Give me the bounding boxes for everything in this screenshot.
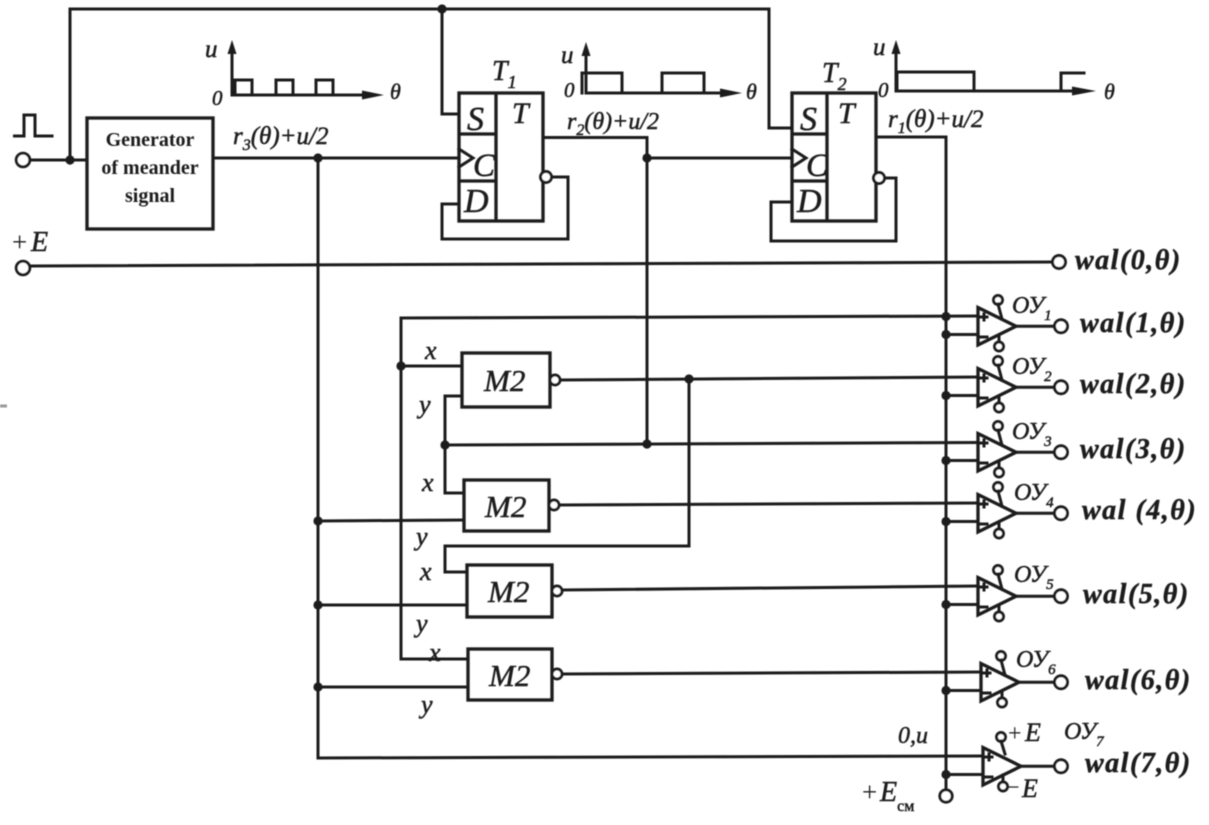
waveform B axes [561, 42, 757, 104]
node r2 drop junction [642, 439, 651, 448]
modulo-2 adder M2-3 [467, 565, 552, 617]
terminal wal(2) [1055, 381, 1068, 394]
terminal wal(4) [1055, 507, 1068, 520]
svg-text:θ: θ [746, 79, 757, 104]
node input junction [65, 155, 74, 164]
node OY5 - input [941, 600, 950, 609]
wire OY5 - input stub [946, 603, 978, 606]
svg-text:of meander: of meander [101, 157, 198, 179]
output bubble M2-2 [549, 500, 559, 510]
svg-text:+: + [1008, 721, 1022, 747]
input terminal [16, 153, 30, 167]
svg-text:0: 0 [212, 86, 223, 110]
wire M2-2 x input [445, 445, 464, 493]
wire M2-1 x input [401, 365, 462, 368]
op-amp OY1 [978, 296, 1016, 352]
clock triangle T2 [792, 149, 806, 167]
svg-text:x: x [421, 468, 434, 497]
wire OY1 output [1016, 325, 1055, 328]
svg-text:wal(7,θ): wal(7,θ) [1085, 748, 1192, 779]
svg-text:Generator: Generator [106, 129, 195, 151]
svg-text:x: x [419, 557, 432, 586]
wire OY2 output [1016, 386, 1055, 389]
wire r3 bottom line to OY7 [318, 756, 983, 758]
svg-text:M2: M2 [488, 658, 530, 693]
svg-text:T: T [838, 97, 857, 130]
wire r1 vertical bus x401 [401, 318, 468, 659]
wire T1 Q output r2 [543, 136, 647, 139]
wire r2 to T2 C [647, 157, 792, 160]
wire rail drop to T2 S [769, 9, 792, 128]
output bubble M2-1 [550, 375, 560, 385]
terminal +Ecm [940, 790, 952, 802]
node r3 branch [313, 153, 322, 162]
waveform B pulses [582, 73, 704, 93]
waveform C axes [873, 34, 1115, 104]
input pulse symbol [15, 115, 53, 136]
wire M2-4 output to OY6 [562, 672, 981, 674]
svg-text:S: S [467, 101, 484, 138]
modulo-2 adder M2-1 [462, 353, 550, 407]
svg-text:D: D [463, 183, 489, 220]
wire r2 vertical drop [646, 138, 649, 445]
+E terminal [16, 261, 30, 275]
svg-text:y: y [413, 522, 428, 551]
wire riser to top rail [69, 9, 72, 160]
svg-text:+: + [862, 777, 877, 807]
svg-text:E: E [1021, 774, 1038, 803]
terminal wal(7) [1055, 760, 1068, 773]
svg-text:u: u [205, 36, 218, 63]
node r3 bus to M2-4 y [313, 682, 322, 691]
svg-text:C: C [473, 148, 496, 184]
node OY1 + input [941, 312, 950, 321]
terminal wal(1) [1055, 320, 1068, 333]
svg-text:θ: θ [390, 79, 401, 104]
inverted output bubble T1 [541, 172, 552, 183]
svg-text:wal(2,θ): wal(2,θ) [1080, 369, 1187, 400]
op-amp OY3 [978, 422, 1016, 478]
clock triangle T1 [459, 149, 473, 167]
node rail/T1-S junction [437, 4, 446, 13]
svg-text:M2: M2 [484, 489, 526, 524]
svg-text:0: 0 [878, 78, 889, 102]
waveform C pulse [897, 72, 974, 91]
node OY2 - input [941, 391, 950, 400]
svg-text:u: u [561, 42, 574, 69]
op-amp OY2 [978, 357, 1016, 413]
svg-text:0,u: 0,u [898, 723, 928, 749]
modulo-2 adder M2-4 [468, 649, 552, 700]
output bubble M2-3 [552, 586, 562, 596]
wire M2-1 output to OY2 [560, 377, 978, 380]
svg-text:y: y [416, 390, 431, 419]
wire M2-3 y input [318, 604, 467, 607]
wire OY6 - input stub [946, 689, 981, 692]
flip-flop T1 box [459, 93, 543, 221]
svg-text:wal(3,θ): wal(3,θ) [1080, 434, 1187, 465]
wire rail drop to T1 S [442, 9, 459, 114]
node OY4 - input [941, 517, 950, 526]
wire input to generator [30, 159, 87, 162]
svg-text:x: x [428, 638, 441, 667]
svg-text:T: T [512, 97, 531, 130]
op-amp OY5 [978, 566, 1016, 622]
svg-text:D: D [796, 183, 822, 220]
node M2-1 output branch [684, 374, 693, 383]
svg-text:0: 0 [564, 78, 575, 102]
svg-text:E: E [1024, 718, 1041, 747]
waveform A axes [205, 36, 401, 110]
inverted output bubble T2 [874, 173, 885, 184]
wire T2 feedback loop to D [771, 178, 896, 241]
wire OY3 - input stub [946, 459, 978, 462]
waveform C end step [1061, 73, 1084, 91]
svg-text:C: C [806, 148, 829, 184]
wire r2 line to OY3 [445, 443, 978, 446]
wire M2-4 y input [318, 686, 468, 689]
node r2 line left end [440, 440, 449, 449]
svg-text:wal(0,θ): wal(0,θ) [1075, 245, 1182, 276]
op-amp OY6 [981, 652, 1019, 708]
wire r1 distribution line to OY1 [401, 316, 978, 318]
wire OY4 - input stub [946, 520, 978, 523]
wire OY7 output [1021, 765, 1055, 768]
op-amp OY7 [983, 733, 1021, 792]
svg-text:M2: M2 [483, 363, 525, 398]
output bubble M2-4 [552, 669, 562, 679]
wire generator output r3 to T1 C [213, 157, 459, 160]
node r2/T2-C junction [642, 153, 651, 162]
svg-text:signal: signal [125, 185, 175, 207]
svg-text:y: y [418, 690, 433, 719]
modulo-2 adder M2-2 [464, 480, 549, 531]
wire M2-1 output branch to M2-3 x [445, 379, 689, 572]
wire OY4 output [1016, 512, 1055, 515]
node r3 bus to M2-2 y [313, 516, 322, 525]
node OY7 - input [941, 770, 950, 779]
flip-flop T2 box [792, 93, 876, 221]
svg-text:wal(6,θ): wal(6,θ) [1085, 665, 1192, 696]
wire +E line to wal(0) [30, 262, 1053, 266]
svg-text:u: u [873, 34, 886, 61]
svg-text:wal(1,θ): wal(1,θ) [1080, 308, 1187, 339]
node OY3 - input [941, 456, 950, 465]
node r3 bus to M2-3 y [313, 600, 322, 609]
op-amp OY4 [978, 483, 1016, 539]
terminal wal(6) [1055, 676, 1068, 689]
svg-text:y: y [413, 609, 428, 638]
wire M2-2 output to OY4 [559, 503, 978, 505]
svg-text:wal (4,θ): wal (4,θ) [1082, 495, 1197, 526]
svg-text:−: − [1006, 775, 1020, 801]
wire OY7 - input stub [946, 773, 983, 776]
svg-text:wal(5,θ): wal(5,θ) [1083, 579, 1190, 610]
node OY1 - input [941, 330, 950, 339]
svg-text:E: E [30, 227, 48, 258]
svg-text:+: + [12, 227, 27, 257]
terminal wal(5) [1055, 590, 1068, 603]
wire OY2 - input stub [946, 394, 978, 397]
generator of meander signal box [87, 118, 213, 229]
svg-text:x: x [424, 336, 437, 365]
wire T1 feedback loop to D [442, 177, 568, 239]
wire T2 Q output r1 [876, 136, 946, 139]
node r1 bus to M2-1 x [396, 361, 405, 370]
terminal wal(0) [1053, 256, 1066, 269]
svg-text:S: S [800, 101, 817, 138]
wire r3 left bus [317, 158, 320, 758]
wire M2-1 y input [445, 396, 462, 445]
node OY6 - input [941, 686, 950, 695]
waveform A pulses [235, 80, 333, 95]
wire OY3 output [1016, 451, 1055, 454]
wire OY1 - input stub [946, 333, 978, 336]
wire r1 bus vertical [945, 137, 948, 790]
terminal wal(3) [1055, 446, 1068, 459]
stray scan mark left edge [0, 405, 7, 408]
svg-text:M2: M2 [487, 574, 529, 609]
svg-text:θ: θ [1104, 79, 1115, 104]
wire M2-2 y input [318, 520, 464, 521]
wire M2-3 output to OY5 [562, 586, 978, 590]
wire top rail [70, 8, 769, 11]
wire OY6 output [1019, 681, 1055, 684]
wire OY5 output [1016, 595, 1055, 598]
